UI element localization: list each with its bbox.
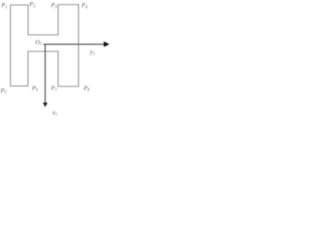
svg-text:P8: P8 (83, 85, 90, 92)
arrowhead x1 (43, 103, 48, 107)
svg-text:y1: y1 (89, 49, 95, 56)
axis y1 (43, 43, 105, 45)
arrowhead y1 (104, 41, 110, 47)
svg-text:P6: P6 (31, 85, 38, 92)
axis x1 (44, 44, 46, 103)
svg-text:P5: P5 (0, 87, 6, 94)
svg-text:P7: P7 (50, 85, 58, 92)
svg-text:x1: x1 (51, 109, 57, 116)
svg-text:P2: P2 (28, 1, 35, 8)
svg-text:P4: P4 (81, 2, 88, 9)
H-section outline (10, 5, 78, 87)
svg-text:P3: P3 (50, 2, 57, 9)
svg-text:O1: O1 (35, 39, 42, 46)
svg-text:P1: P1 (0, 2, 7, 9)
